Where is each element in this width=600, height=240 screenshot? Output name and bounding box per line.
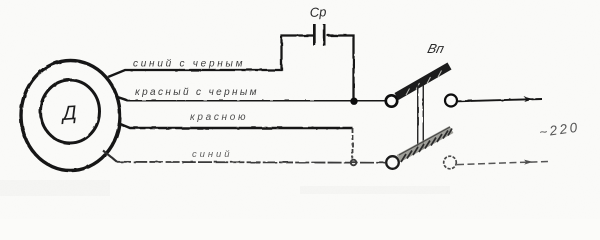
motor M1 outer circle — [21, 61, 120, 171]
wire: red lead from motor, drops to join blue lead — [118, 123, 353, 159]
switch Вп lower blade — [399, 127, 453, 162]
label: синий с черным — [133, 59, 243, 70]
svg-text:Ср: Ср — [309, 4, 326, 20]
label: красный — [190, 112, 246, 123]
switch Вп label — [426, 41, 446, 56]
switch Вп upper pole terminal — [386, 95, 397, 106]
junction of red and blue leads — [351, 160, 357, 166]
junction node on red-with-black lead — [350, 98, 357, 105]
svg-text:красною: красною — [190, 112, 246, 123]
svg-text:синий с черным: синий с черным — [133, 59, 243, 70]
switch Вп lower output terminal — [444, 156, 457, 169]
switch Вп upper blade — [397, 66, 450, 97]
svg-text:Д: Д — [60, 102, 78, 125]
wire: lower output dashed with arrow to mains — [457, 160, 550, 165]
motor M1 label Д — [60, 102, 78, 125]
wire: upper output with arrow to mains — [458, 97, 543, 102]
switch Вп mechanical link — [418, 85, 424, 149]
switch Вп lower pole terminal — [386, 156, 399, 169]
capacitor label Ср — [309, 4, 326, 20]
motor M1 inner circle — [41, 80, 100, 143]
wire: blue lead from motor to switch lower pole — [103, 151, 385, 163]
label: красный с черным — [135, 87, 257, 98]
wire: blue-with-black lead from motor to capacitor left plate — [108, 36, 313, 78]
wire: red-with-black lead from motor to switch upper pole — [116, 97, 386, 102]
wire: capacitor right plate down to red-with-black lead — [327, 36, 354, 99]
switch Вп upper output terminal — [445, 95, 457, 107]
capacitor C (Ср) plates — [314, 24, 325, 46]
label: синий — [192, 149, 230, 160]
label: ~220 mains — [538, 120, 578, 140]
